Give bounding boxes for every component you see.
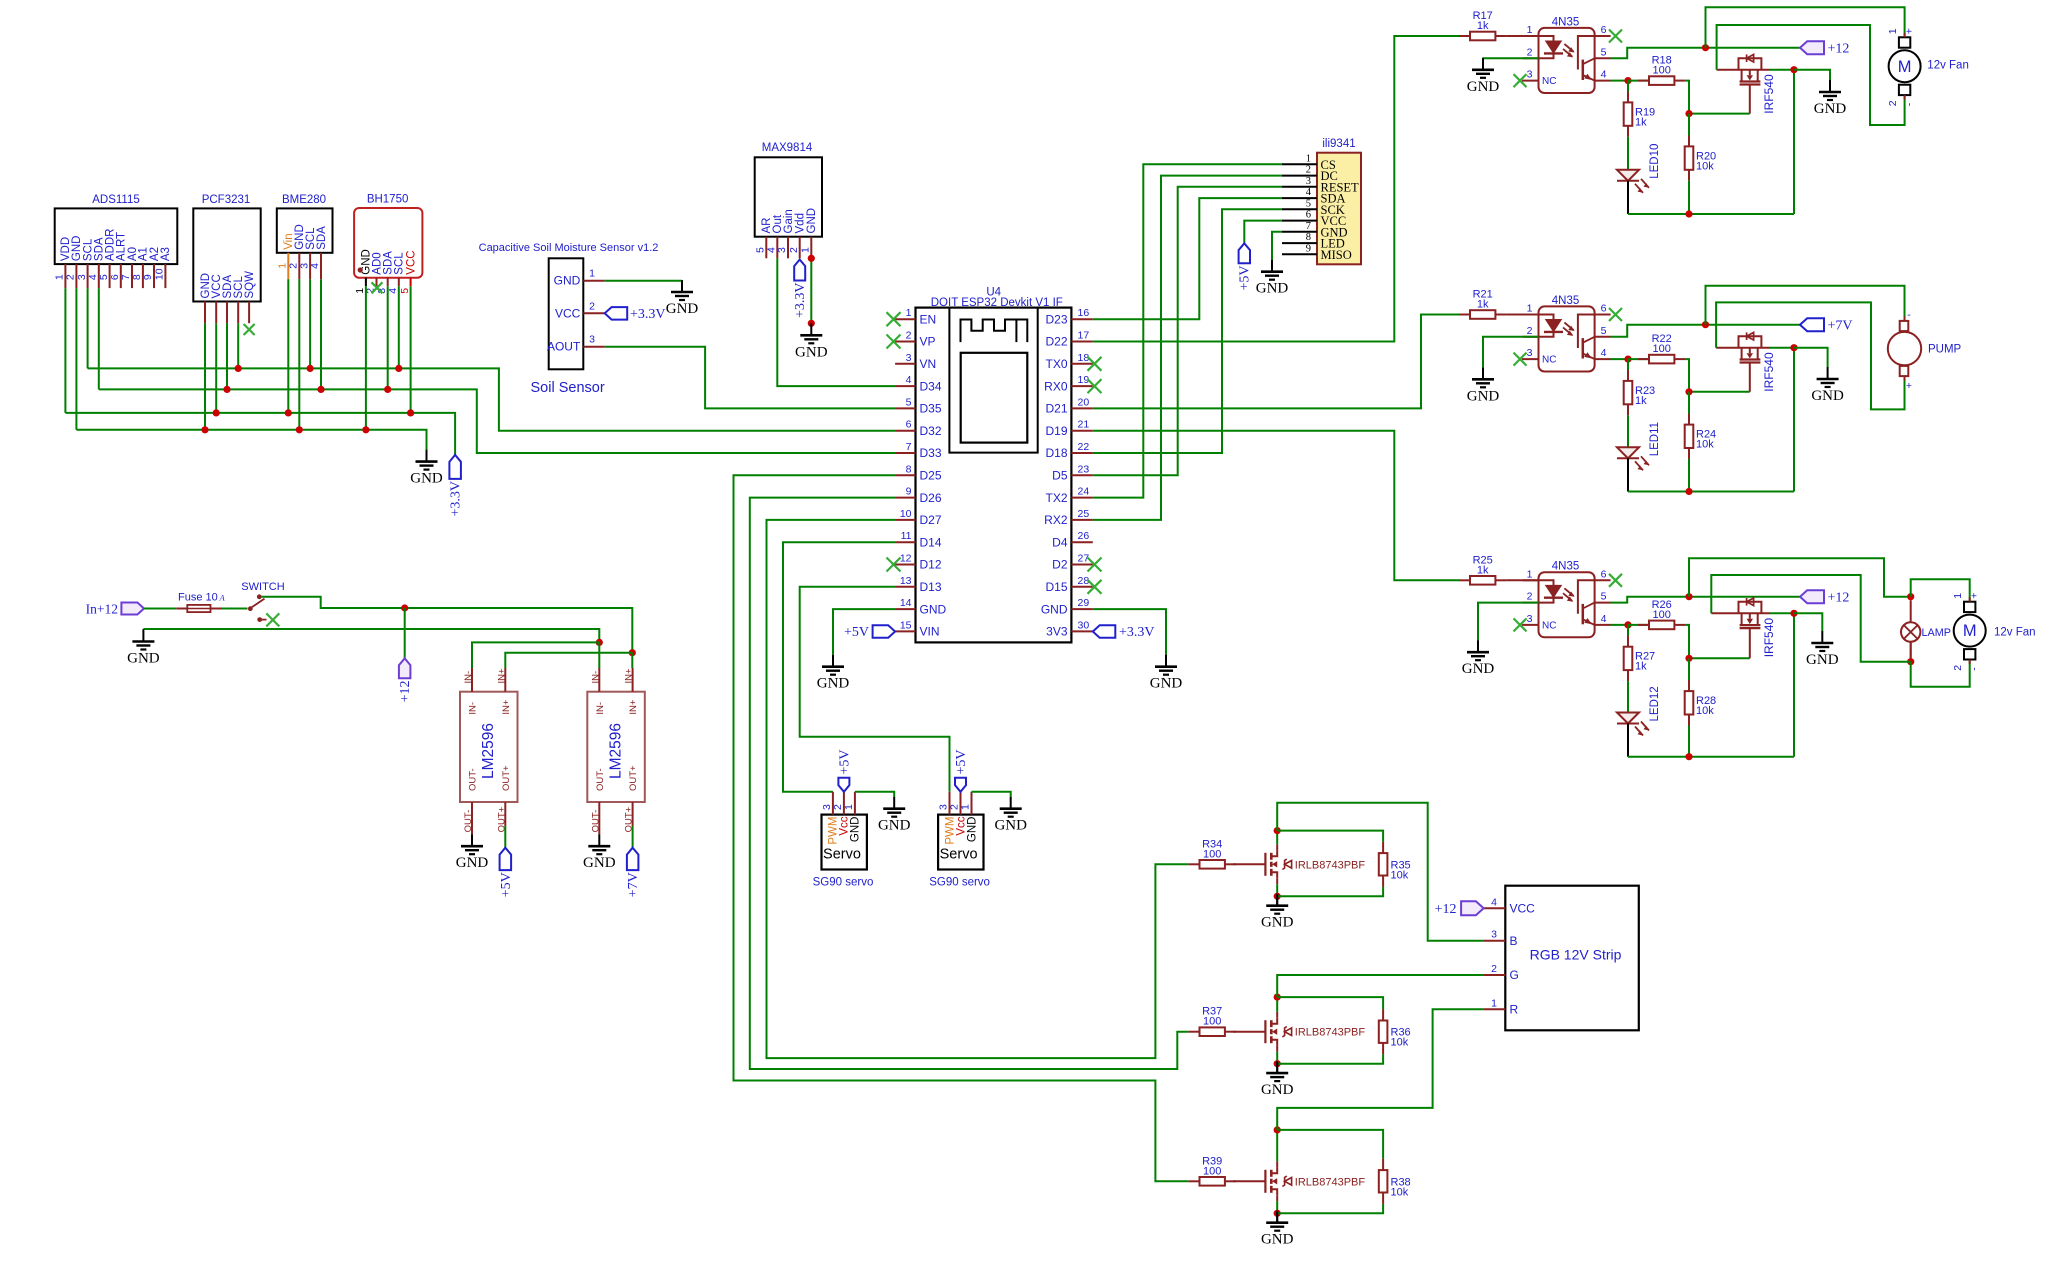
junction dot gate circuit 3 (1685, 655, 1692, 662)
svg-text:D33: D33 (920, 446, 942, 460)
svg-text:Vdd: Vdd (795, 213, 807, 233)
svg-text:NC: NC (1542, 76, 1556, 87)
wire pump bottom loop (1716, 302, 1904, 409)
wire D25 to R39 (734, 475, 1189, 1181)
svg-text:10k: 10k (1391, 869, 1409, 881)
wire ili9341 CS to TX2 (1093, 164, 1282, 497)
junction dot lamp top node (1907, 593, 1914, 600)
junction dots SDA bus (223, 386, 391, 393)
ground (ili9341) (1256, 260, 1289, 297)
svg-text:-: - (1907, 309, 1911, 321)
svg-text:Servo: Servo (823, 847, 861, 863)
wire LED11 cathode to rail (1627, 458, 1629, 491)
svg-text:+12: +12 (1435, 902, 1457, 917)
ground (power input) (127, 629, 160, 667)
resistor R27 (1624, 625, 1655, 681)
svg-text:IN-: IN- (595, 702, 606, 715)
svg-text:Soil Sensor: Soil Sensor (531, 380, 605, 396)
svg-text:-: - (1904, 102, 1916, 106)
junction dots SCL bus (235, 365, 403, 372)
power flag +12 (circuit 1) (1800, 41, 1849, 57)
svg-text:4: 4 (1601, 347, 1607, 359)
wire drain node stage 2 (1274, 994, 1281, 1012)
svg-text:9: 9 (906, 486, 912, 498)
svg-text:A2: A2 (149, 247, 161, 261)
svg-text:1: 1 (843, 804, 855, 810)
resistor R24 (1685, 392, 1716, 492)
wire LM2596#2 OUT- (598, 826, 600, 834)
junction dot gate circuit 1 (1685, 110, 1692, 117)
ground (opto1 pin2) (1467, 58, 1500, 95)
svg-text:IN-: IN- (463, 671, 474, 684)
svg-text:7: 7 (1306, 221, 1311, 232)
svg-text:12v Fan: 12v Fan (1927, 60, 1969, 72)
junction dots GND bus (201, 426, 369, 433)
svg-text:21: 21 (1078, 419, 1090, 431)
svg-text:GND: GND (795, 344, 828, 360)
wire bottom rail circuit 3 (1628, 613, 1794, 760)
svg-text:6: 6 (1601, 303, 1607, 315)
svg-text:4N35: 4N35 (1552, 16, 1580, 28)
wire GND bus (76, 279, 426, 449)
wire RGB R channel (1277, 1009, 1483, 1130)
wire SCL bus to D32 (88, 279, 896, 430)
junction dot pin4 circuit 2 (1624, 356, 1631, 363)
svg-text:OUT-: OUT- (468, 768, 479, 791)
svg-text:GND: GND (1261, 915, 1294, 931)
svg-text:SWITCH: SWITCH (241, 581, 284, 593)
svg-text:D5: D5 (1052, 469, 1068, 483)
svg-text:+5V: +5V (954, 749, 969, 774)
svg-text:Fuse 10: Fuse 10 (178, 592, 218, 604)
wire In+12 to fuse (144, 608, 176, 610)
wire ili9341 DC to RX2 (1093, 176, 1282, 520)
svg-text:SQW: SQW (244, 271, 256, 299)
resistor R18 (1628, 55, 1685, 85)
svg-text:100: 100 (1203, 1165, 1221, 1177)
wire LM2596#1 OUT+ (504, 826, 506, 848)
MOSFET IRF540 #2 (1716, 332, 1794, 391)
svg-text:10k: 10k (1696, 705, 1714, 717)
svg-text:GND: GND (994, 818, 1027, 834)
svg-text:5: 5 (399, 288, 411, 294)
wire LED12 cathode to rail (1627, 724, 1629, 757)
MOSFET Q? IRLB8743PBF #1 (1233, 844, 1365, 884)
svg-text:17: 17 (1078, 330, 1090, 342)
svg-text:8: 8 (1306, 232, 1311, 243)
svg-text:+3.3V: +3.3V (448, 481, 463, 517)
no-connect X marks ESP32 left pins (887, 312, 901, 571)
wire fan 2 top (1911, 579, 1970, 601)
svg-text:GND: GND (1811, 388, 1844, 404)
svg-text:A3: A3 (160, 247, 172, 261)
ground (sensor bus) (410, 450, 443, 487)
wire stage 3 source to ground (1276, 1213, 1278, 1222)
svg-text:1: 1 (906, 307, 912, 319)
svg-text:4: 4 (309, 263, 321, 269)
resistor R26 (1628, 599, 1685, 629)
svg-text:BH1750: BH1750 (367, 194, 409, 206)
svg-text:2: 2 (1491, 963, 1497, 975)
wire pin4 node circuit 3 (1611, 624, 1629, 626)
svg-text:29: 29 (1078, 597, 1090, 609)
svg-text:GND: GND (1462, 661, 1495, 677)
svg-text:1k: 1k (1477, 20, 1489, 32)
junction dot pin4 circuit 3 (1624, 621, 1631, 628)
microphone module MAX9814 (755, 142, 823, 258)
svg-text:3: 3 (906, 352, 912, 364)
ground (servo 2) (994, 797, 1027, 834)
svg-text:IN-: IN- (468, 702, 479, 715)
wire opto2 pin2 to ground (1483, 337, 1539, 368)
svg-text:NC: NC (1542, 620, 1556, 631)
wire ESP32 GND pin29 (1093, 609, 1166, 655)
svg-text:GND: GND (1467, 388, 1500, 404)
svg-text:GND: GND (583, 855, 616, 871)
wire servo 2 GND (972, 792, 1011, 797)
svg-text:GND: GND (127, 651, 160, 667)
ground (IRLB stage 3) (1261, 1211, 1294, 1248)
wire fuse to switch (222, 608, 248, 610)
ground (MOSFET 3 source) (1806, 631, 1839, 668)
power flag +3.3V (ESP32 3V3) (1093, 625, 1155, 640)
svg-text:24: 24 (1078, 486, 1090, 498)
svg-text:GND: GND (1041, 602, 1068, 616)
junction dot +12 branch (401, 604, 408, 611)
svg-text:100: 100 (1653, 609, 1671, 621)
svg-text:SG90 servo: SG90 servo (929, 877, 990, 889)
wire ili9341 SDA to D23 (1093, 198, 1282, 319)
svg-text:25: 25 (1078, 508, 1090, 520)
svg-text:6: 6 (906, 419, 912, 431)
ground (servo 1) (878, 797, 911, 834)
ground (LM2596 #1) (456, 834, 489, 871)
wire MAX9814 Out to D34 (777, 258, 895, 386)
wire D21 to R21 (1093, 315, 1459, 409)
svg-text:+5V: +5V (844, 625, 869, 640)
svg-text:20: 20 (1078, 396, 1090, 408)
svg-text:2: 2 (1887, 100, 1899, 106)
power flag +5V (LM2596 #1) (499, 848, 514, 898)
svg-text:5: 5 (906, 396, 912, 408)
junction dot source circuit 3 (1790, 610, 1797, 617)
svg-text:+7V: +7V (626, 872, 641, 897)
svg-text:D34: D34 (920, 379, 942, 393)
svg-text:MAX9814: MAX9814 (762, 142, 813, 154)
svg-text:3: 3 (589, 334, 595, 346)
no-connect X opto2 pin6 (1609, 308, 1622, 321)
no-connect X opto2 pin3 (1514, 353, 1527, 366)
junction dot +V line circuit 2 (1702, 321, 1709, 328)
svg-text:SCL: SCL (82, 238, 94, 261)
svg-text:IRF540: IRF540 (1762, 618, 1776, 658)
servo module Servo 1 (SG90) (813, 792, 874, 889)
connector Soil Sensor (479, 242, 659, 396)
motor M 12v Fan (circuit 3) (1952, 593, 2035, 671)
svg-text:1: 1 (1491, 997, 1497, 1009)
svg-text:100: 100 (1653, 65, 1671, 77)
svg-text:100: 100 (1653, 343, 1671, 355)
svg-text:MISO: MISO (1321, 248, 1352, 262)
resistor R35 (1277, 831, 1410, 897)
wire D26 to R37 (750, 498, 1189, 1069)
connector U? PCF3231 (193, 194, 260, 323)
svg-text:+12: +12 (1828, 42, 1850, 57)
svg-text:10: 10 (900, 508, 912, 520)
svg-text:1k: 1k (1477, 299, 1489, 311)
no-connect X opto1 pin6 (1609, 30, 1622, 43)
svg-text:2: 2 (1527, 591, 1533, 603)
svg-text:5: 5 (1601, 46, 1607, 58)
connector J? ADS1115 (54, 194, 178, 288)
svg-text:GND: GND (1256, 281, 1289, 297)
optocoupler U? 4N35 #3 (1522, 561, 1611, 638)
wire bottom rail circuit 2 (1628, 348, 1794, 495)
svg-text:100: 100 (1203, 848, 1221, 860)
wire fan 2 bottom (1911, 658, 1970, 686)
svg-text:SDA: SDA (316, 226, 328, 250)
motor M 12v Fan (circuit 1) (1887, 28, 1969, 106)
svg-text:6: 6 (1601, 24, 1607, 36)
junction dot +V line circuit 3 (1685, 593, 1692, 600)
wire source to ground circuit 2 (1794, 348, 1828, 367)
svg-text:VIN: VIN (920, 625, 940, 639)
svg-text:+5V: +5V (837, 749, 852, 774)
svg-text:3: 3 (776, 247, 788, 253)
wire ESP32 GND pin14 (833, 609, 895, 655)
power flag +7V (LM2596 #2) (626, 848, 641, 898)
svg-text:1: 1 (1527, 568, 1533, 580)
svg-text:1: 1 (1527, 24, 1533, 36)
svg-text:R: R (1510, 1003, 1519, 1017)
svg-text:D19: D19 (1045, 424, 1067, 438)
power flag +3.3V (MAX9814 Vdd) (793, 260, 808, 319)
wire LM2596#1 OUT- (471, 826, 473, 834)
ground (ESP32 pin14) (817, 655, 850, 692)
svg-text:2: 2 (1527, 46, 1533, 58)
svg-text:26: 26 (1078, 530, 1090, 542)
wire +V top rail circuit 1 (1706, 7, 1905, 47)
svg-text:IRF540: IRF540 (1762, 352, 1776, 392)
wire +V top rail circuit 2 (1706, 286, 1905, 325)
wire opto2 pin5 to +V line (1611, 325, 1801, 337)
connector U? BME280 (277, 194, 333, 279)
svg-text:GND: GND (1261, 1082, 1294, 1098)
wire lamp bottom node (1711, 575, 1914, 665)
svg-text:M: M (1963, 622, 1977, 640)
svg-text:IN+: IN+ (624, 668, 635, 684)
svg-text:16: 16 (1078, 307, 1090, 319)
regulator module LM2596 #1 (460, 668, 518, 832)
wire gate node circuit 2 (1685, 359, 1749, 392)
wire opto1 pin5 to +V line (1611, 48, 1801, 59)
LED LED12 (1617, 681, 1661, 735)
svg-text:VN: VN (920, 357, 937, 371)
svg-text:LAMP: LAMP (1922, 627, 1951, 639)
lamp LAMP (1901, 600, 1951, 658)
svg-text:SG90 servo: SG90 servo (813, 877, 874, 889)
junction dot LM2596 IN+ node (629, 649, 636, 656)
svg-text:GND: GND (817, 676, 850, 692)
wire gate node circuit 3 (1685, 625, 1749, 658)
svg-text:+: + (1906, 380, 1912, 392)
wire SDA bus to D33 (99, 279, 895, 453)
switch SWITCH (241, 581, 284, 622)
svg-text:A: A (219, 593, 226, 603)
junction dot gate circuit 2 (1685, 388, 1692, 395)
wire D14 to servo 1 PWM (783, 542, 895, 792)
svg-text:RX0: RX0 (1044, 379, 1068, 393)
svg-text:EN: EN (920, 312, 937, 326)
svg-text:1: 1 (1527, 303, 1533, 315)
svg-text:13: 13 (900, 575, 912, 587)
wire ili9341 VCC to +5V (1244, 221, 1282, 244)
junction dot LM2596 IN- node (596, 639, 603, 646)
svg-text:4N35: 4N35 (1552, 295, 1580, 307)
svg-text:2: 2 (65, 274, 77, 280)
power flag In+12 (86, 602, 144, 617)
svg-text:9: 9 (1306, 243, 1311, 254)
optocoupler U? 4N35 #1 (1522, 16, 1611, 93)
svg-text:6: 6 (1306, 210, 1311, 221)
power flag +5V (servo 2 Vcc) (954, 749, 969, 791)
svg-text:6: 6 (109, 274, 121, 280)
svg-text:4: 4 (1306, 187, 1312, 198)
wire pin4 node circuit 1 (1611, 80, 1629, 82)
svg-text:4: 4 (387, 288, 399, 294)
power flag +3.3V (sensor bus) (448, 455, 463, 517)
wire fan 1 bottom loop (1717, 25, 1905, 125)
wire R to opto2 pin1 (1506, 314, 1538, 316)
svg-text:ili9341: ili9341 (1322, 138, 1355, 150)
svg-text:SCL: SCL (394, 252, 406, 275)
svg-text:1k: 1k (1635, 395, 1647, 407)
svg-text:D27: D27 (920, 513, 942, 527)
svg-text:3: 3 (1527, 613, 1533, 625)
svg-text:+: + (1969, 593, 1981, 599)
svg-text:1k: 1k (1635, 116, 1647, 128)
svg-text:4N35: 4N35 (1552, 561, 1580, 573)
svg-text:SDA: SDA (222, 275, 234, 299)
svg-text:D22: D22 (1045, 335, 1067, 349)
svg-text:5: 5 (98, 274, 110, 280)
fuse Fuse 10 A (176, 592, 225, 613)
wire ili9341 RESET to D5 (1093, 187, 1282, 476)
svg-text:GND: GND (1814, 101, 1847, 117)
svg-text:2: 2 (589, 300, 595, 312)
svg-text:30: 30 (1078, 619, 1090, 631)
no-connect X opto1 pin3 (1514, 74, 1527, 87)
svg-text:IRLB8743PBF: IRLB8743PBF (1295, 1176, 1366, 1188)
ground (LM2596 #2) (583, 834, 616, 871)
wire stage 2 source to ground (1276, 1064, 1278, 1073)
resistor R17 (1459, 10, 1506, 40)
svg-text:GND: GND (1467, 79, 1500, 95)
ground (ESP32 pin29) (1150, 655, 1183, 692)
svg-text:Gain: Gain (783, 209, 795, 233)
wire +V top rail circuit 3 (1689, 558, 1907, 596)
svg-text:D12: D12 (920, 558, 942, 572)
wire D19 to R25 (1093, 431, 1459, 581)
wire pin4 node circuit 2 (1611, 358, 1629, 360)
wire source to ground circuit 3 (1794, 613, 1822, 631)
svg-text:D14: D14 (920, 535, 942, 549)
LED LED11 (1617, 415, 1661, 470)
resistor R39 (1189, 1155, 1236, 1185)
svg-text:ADS1115: ADS1115 (92, 194, 140, 206)
svg-text:OUT+: OUT+ (501, 765, 512, 791)
no-connect X opto3 pin3 (1514, 618, 1527, 631)
ground (MAX9814) (795, 323, 828, 360)
wire drain node stage 3 (1274, 1126, 1281, 1161)
power flag +7V (circuit 2) (1800, 318, 1853, 334)
svg-text:3: 3 (1491, 929, 1497, 941)
wire source node stage 2 (1274, 1052, 1281, 1068)
power flag +5V (ESP32 VIN) (844, 625, 895, 640)
wire ili9341 GND (1272, 232, 1282, 260)
svg-text:22: 22 (1078, 441, 1090, 453)
svg-text:1: 1 (1952, 593, 1964, 599)
svg-text:VCC: VCC (405, 250, 417, 274)
pin-1 marker BH1750 (358, 267, 363, 272)
svg-text:B: B (1510, 934, 1518, 948)
svg-text:7: 7 (906, 441, 912, 453)
svg-text:Servo: Servo (940, 847, 978, 863)
MOSFET IRF540 #1 (1717, 54, 1794, 113)
svg-text:4: 4 (1601, 613, 1607, 625)
svg-text:D23: D23 (1045, 312, 1067, 326)
resistor R22 (1628, 333, 1685, 363)
svg-text:ALRT: ALRT (116, 232, 128, 261)
junction dots VCC bus (213, 409, 415, 416)
MOSFET Q? IRLB8743PBF #2 (1233, 1012, 1365, 1052)
svg-text:2: 2 (1306, 165, 1311, 176)
wire ili9341 SCK to D18 (1093, 209, 1282, 453)
wire gate node circuit 1 (1685, 81, 1749, 114)
svg-text:OUT-: OUT- (595, 768, 606, 791)
svg-text:RX2: RX2 (1044, 513, 1068, 527)
svg-text:DOIT ESP32 Devkit V1 IF: DOIT ESP32 Devkit V1 IF (931, 297, 1063, 309)
svg-text:10k: 10k (1391, 1186, 1409, 1198)
svg-text:TX2: TX2 (1045, 491, 1067, 505)
svg-text:LED11: LED11 (1649, 422, 1661, 456)
svg-text:4: 4 (1491, 896, 1497, 908)
display module ili9341 (1282, 138, 1361, 264)
svg-text:GND: GND (1150, 676, 1183, 692)
svg-text:1: 1 (589, 268, 595, 280)
svg-text:VCC: VCC (1510, 902, 1536, 916)
svg-text:GND: GND (1806, 652, 1839, 668)
svg-text:100: 100 (1203, 1016, 1221, 1028)
svg-text:1k: 1k (1477, 564, 1489, 576)
wire source node stage 3 (1274, 1201, 1281, 1217)
svg-text:D26: D26 (920, 491, 942, 505)
svg-text:5: 5 (1601, 591, 1607, 603)
svg-text:LED12: LED12 (1649, 686, 1661, 721)
svg-text:+3.3V: +3.3V (1119, 625, 1155, 640)
LED LED10 (1617, 137, 1661, 193)
svg-text:3: 3 (1527, 347, 1533, 359)
optocoupler U? 4N35 #2 (1522, 295, 1611, 372)
ground (IRLB stage 1) (1261, 894, 1294, 931)
power flag +12 (circuit 3) (1800, 590, 1849, 606)
svg-text:IRF540: IRF540 (1762, 74, 1776, 114)
svg-text:In+12: In+12 (86, 602, 118, 617)
svg-text:+5V: +5V (499, 872, 514, 897)
svg-text:4: 4 (1601, 69, 1607, 81)
svg-text:D35: D35 (920, 402, 942, 416)
svg-text:D2: D2 (1052, 558, 1068, 572)
